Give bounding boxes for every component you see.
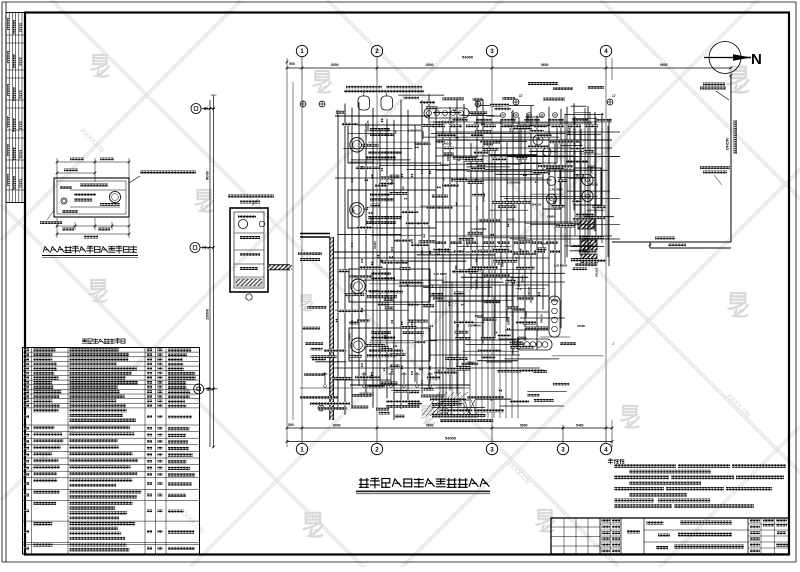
svg-text:5600: 5600 [520,424,528,428]
svg-text:DN100: DN100 [532,202,542,206]
svg-text:DN50: DN50 [370,216,374,224]
svg-text:1.00 DN100: 1.00 DN100 [471,227,486,231]
svg-text:4: 4 [604,48,608,55]
svg-text:DN80: DN80 [507,218,515,222]
svg-text:1.00 DN50: 1.00 DN50 [550,188,564,192]
svg-text:DN80: DN80 [547,214,555,218]
svg-text:6000: 6000 [333,424,341,428]
svg-text:N: N [751,51,762,68]
svg-text:1.00 DN100: 1.00 DN100 [486,114,501,118]
svg-text:DN125: DN125 [595,267,599,277]
svg-text:15000: 15000 [205,308,210,320]
svg-text:DN80: DN80 [519,336,527,340]
svg-text:2: 2 [375,48,379,55]
svg-text:3: 3 [561,446,565,453]
svg-text:DN100: DN100 [540,314,544,324]
svg-text:1.00 DN50: 1.00 DN50 [434,272,448,276]
svg-text:8000: 8000 [331,63,339,67]
svg-text:9000: 9000 [205,170,210,180]
svg-text:DN80: DN80 [507,317,511,325]
svg-text:1.00 DN80: 1.00 DN80 [408,129,422,133]
svg-text:DN150: DN150 [725,137,730,150]
svg-text:17: 17 [612,94,616,98]
svg-text:500: 500 [288,423,294,427]
svg-text:1.00 DN50: 1.00 DN50 [468,324,482,328]
svg-text:DN65: DN65 [467,361,475,365]
svg-text:DN100: DN100 [527,287,531,297]
svg-text:1.00 DN80: 1.00 DN80 [554,264,568,268]
svg-text:DN80: DN80 [524,311,528,319]
svg-text:DN40: DN40 [348,333,352,341]
svg-text:DN125: DN125 [510,111,514,121]
svg-text:J: J [612,341,614,346]
svg-text:3: 3 [490,48,494,55]
svg-text:1.00 DN80: 1.00 DN80 [366,289,380,293]
svg-text:54000: 54000 [445,436,457,441]
svg-text:9600: 9600 [660,63,668,67]
svg-text:4: 4 [604,446,608,453]
svg-text:DN40: DN40 [521,275,525,283]
svg-text:8000: 8000 [426,63,434,67]
svg-text:DN80: DN80 [587,165,595,169]
svg-text:17: 17 [519,94,523,98]
svg-text:3: 3 [490,446,494,453]
svg-text:DN100: DN100 [481,192,485,202]
svg-text:2: 2 [375,446,379,453]
svg-text:5400: 5400 [576,424,584,428]
svg-text:1: 1 [300,446,304,453]
svg-text:DN80: DN80 [500,259,504,267]
svg-text:DN80: DN80 [526,114,530,122]
svg-text:DN125: DN125 [366,120,370,130]
svg-text:DN80: DN80 [577,324,585,328]
svg-text:DN40: DN40 [373,241,377,249]
svg-text:1: 1 [300,48,304,55]
svg-text:9600: 9600 [541,63,549,67]
svg-text:DN80: DN80 [551,299,559,303]
svg-text:500: 500 [289,62,295,66]
svg-text:54000: 54000 [462,55,474,60]
svg-text:1.00 DN80: 1.00 DN80 [507,180,521,184]
svg-text:9600: 9600 [426,424,434,428]
svg-text:DN50: DN50 [421,131,425,139]
